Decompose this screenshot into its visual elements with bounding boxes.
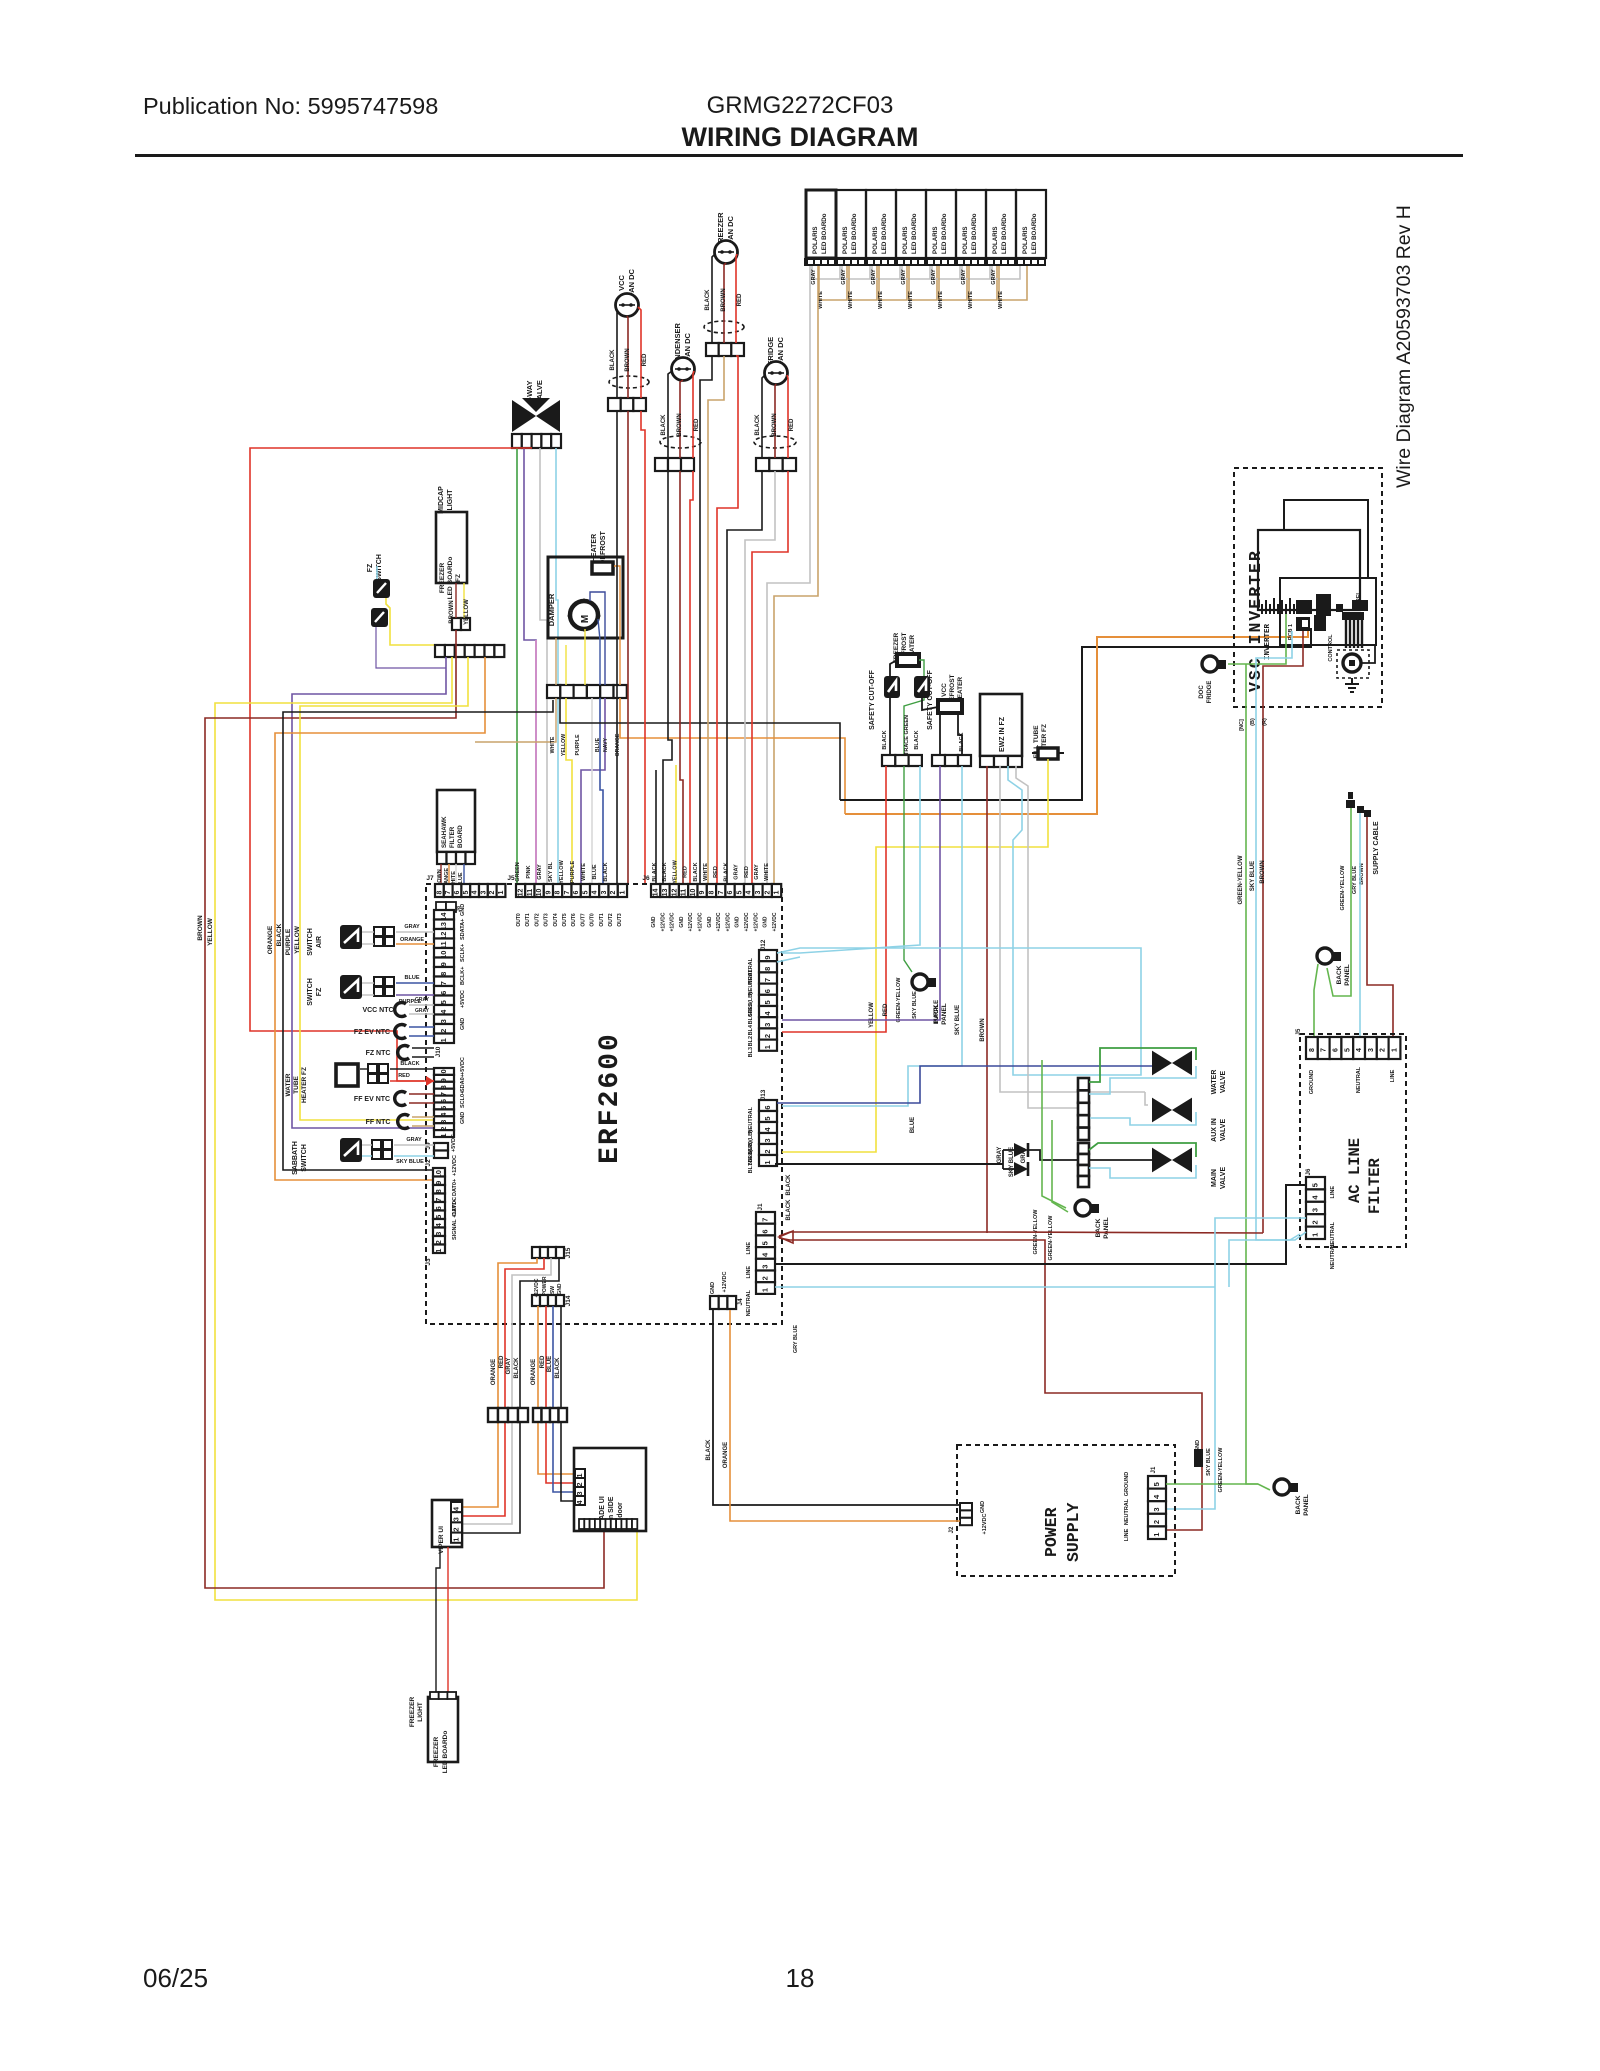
viper connector: [451, 1502, 462, 1512]
wire orange air switch to J10: [362, 943, 374, 945]
svg-text:AUX IN: AUX IN: [1211, 1118, 1218, 1142]
wire green-yellow to back panel ring (valves): [1042, 1060, 1066, 1208]
svg-text:WHITE: WHITE: [998, 291, 1004, 309]
wire gray jumper polaris 3-4: [872, 266, 900, 279]
svg-text:POLARIS: POLARIS: [932, 226, 939, 254]
svg-text:GRAY: GRAY: [415, 1008, 430, 1014]
svg-text:BACK: BACK: [1336, 965, 1343, 984]
svg-text:BROWN: BROWN: [625, 348, 631, 371]
svg-text:8: 8: [436, 890, 443, 894]
wire red water tube heater junction: [390, 1080, 434, 1082]
svg-text:GREEN-YELLOW: GREEN-YELLOW: [1238, 855, 1244, 904]
svg-text:RL5: RL5: [748, 1003, 754, 1013]
svg-text:GRAY: GRAY: [811, 269, 817, 285]
wire tan jumper polaris 4-5: [909, 266, 937, 300]
wire yellow FZ harness long to JADE UI: [215, 657, 637, 1600]
wire red VCC fan: [638, 307, 641, 398]
svg-text:GREEN-YELLOW: GREEN-YELLOW: [1340, 865, 1346, 911]
svg-text:6: 6: [763, 1105, 772, 1109]
wire brown freezer LED long to JADE UI: [205, 630, 604, 1588]
svg-text:9: 9: [439, 962, 448, 966]
svg-text:GREEN: GREEN: [515, 862, 521, 882]
svg-text:GRAY: GRAY: [931, 269, 937, 285]
svg-text:LED BOARDo: LED BOARDo: [442, 1731, 449, 1774]
svg-text:POLARIS: POLARIS: [992, 226, 999, 254]
ring terminal back panel (supply): [1317, 948, 1333, 964]
wire maroon supply cable to filter: [1367, 817, 1393, 1037]
svg-text:DAT0+: DAT0+: [452, 1179, 458, 1196]
VSC inverter dashed box: [1234, 468, 1382, 707]
wire red J14 to jade: [546, 1306, 575, 1483]
svg-text:5: 5: [1311, 1183, 1320, 1187]
wire black CONDENSER fan: [668, 371, 672, 458]
svg-text:BLACK: BLACK: [914, 730, 920, 749]
wire gray EWZ 2: [1016, 766, 1090, 1108]
svg-text:YELLOW: YELLOW: [207, 917, 214, 946]
svg-text:FRIDGE: FRIDGE: [1207, 681, 1213, 704]
svg-text:ORANGE: ORANGE: [723, 1442, 729, 1468]
svg-text:OUT3: OUT3: [544, 913, 550, 927]
wire black FREEZER fan: [712, 254, 715, 343]
svg-text:OUT2: OUT2: [608, 913, 614, 927]
wire maroon EWZ to line bus: [986, 766, 988, 1233]
wire pink to J5: [535, 640, 537, 884]
wire sky-blue 3-way valve to J5: [556, 448, 558, 884]
svg-text:3: 3: [1368, 1048, 1375, 1052]
svg-text:J6: J6: [1306, 1168, 1312, 1175]
damper connector strip: [547, 685, 560, 698]
svg-text:PURPLE: PURPLE: [570, 861, 576, 884]
svg-text:7: 7: [763, 978, 772, 982]
wire sky-blue AC filter neutral to power supply: [1166, 1218, 1306, 1509]
svg-text:LED BOARDo: LED BOARDo: [1001, 213, 1008, 254]
svg-text:2: 2: [1311, 1220, 1320, 1224]
svg-text:+12VDC: +12VDC: [688, 912, 694, 931]
inverter inner box: [1258, 530, 1360, 610]
svg-text:1: 1: [619, 890, 626, 894]
wire maroon ff ev ntc pair: [409, 1093, 434, 1095]
svg-text:J15: J15: [565, 1247, 572, 1258]
svg-text:RED: RED: [883, 1003, 889, 1016]
svg-text:11: 11: [681, 889, 688, 897]
svg-text:NEUTRAL: NEUTRAL: [1356, 1066, 1362, 1093]
svg-text:LED BOARDo: LED BOARDo: [971, 213, 978, 254]
wire navy J12 to water valve: [777, 1066, 1152, 1103]
svg-text:GND: GND: [679, 916, 685, 928]
wire tan jumper polaris 5-6: [939, 266, 967, 300]
svg-text:PINK: PINK: [526, 865, 532, 878]
svg-text:RED: RED: [713, 866, 719, 878]
svg-text:9: 9: [545, 890, 552, 894]
svg-text:5: 5: [761, 1241, 770, 1245]
svg-text:BOARD: BOARD: [457, 825, 464, 848]
svg-text:RED: RED: [683, 866, 689, 878]
svg-text:RED: RED: [789, 418, 795, 431]
wire black freezer fan to J6: [700, 356, 712, 884]
svg-text:GND: GND: [460, 1018, 466, 1030]
svg-text:1: 1: [439, 1133, 448, 1137]
wire brown freezer fan to J6: [708, 356, 724, 884]
svg-text:FZ: FZ: [367, 563, 374, 572]
main valve: [1152, 1148, 1192, 1173]
inverter control connector: [1314, 615, 1326, 631]
wire green doc fridge to inverter: [1228, 614, 1286, 664]
svg-text:POWER: POWER: [542, 1276, 548, 1295]
water valve: [1152, 1051, 1192, 1076]
svg-text:LINE: LINE: [1330, 1186, 1336, 1199]
CONDENSER fan cable clamp: [660, 436, 701, 448]
svg-text:FREEZER: FREEZER: [439, 563, 446, 594]
wire red 3-way valve to left bus: [250, 448, 532, 1081]
svg-text:WHITE: WHITE: [908, 291, 914, 309]
polaris LED board 5: [926, 190, 956, 258]
svg-text:NEUTRAL: NEUTRAL: [746, 1289, 752, 1316]
VCC fan cable clamp: [609, 376, 649, 388]
wire black J13 BL7 to diode: [775, 1163, 1003, 1165]
wire gray EWZ: [1000, 766, 1145, 1092]
EWZ connector: [980, 756, 994, 767]
svg-text:LINE: LINE: [746, 1266, 752, 1279]
svg-text:14: 14: [653, 889, 660, 897]
svg-text:BLUE: BLUE: [547, 1356, 553, 1372]
svg-text:Publication No: 5995747598: Publication No: 5995747598: [143, 93, 438, 119]
svg-text:+12VDC: +12VDC: [698, 912, 704, 931]
wire black bus to VSC inverter: [840, 628, 1311, 800]
svg-text:RED: RED: [398, 1073, 410, 1079]
wire gray vcc ntc pair: [409, 1004, 434, 1006]
svg-text:BL2: BL2: [748, 1036, 754, 1046]
svg-text:2: 2: [489, 890, 496, 894]
wire green 3-way valve to J5: [516, 448, 518, 884]
svg-text:POLARIS: POLARIS: [962, 226, 969, 254]
svg-text:5: 5: [736, 890, 743, 894]
svg-text:FF NTC: FF NTC: [366, 1119, 391, 1126]
wire purple FZ switch down: [376, 627, 446, 668]
svg-text:GRAY: GRAY: [841, 269, 847, 285]
wire tan damper: [555, 638, 557, 685]
wire green-yellow ring to filter ground: [1314, 964, 1318, 1037]
svg-text:SWITCH: SWITCH: [301, 1144, 308, 1172]
svg-text:WHITE: WHITE: [938, 291, 944, 309]
svg-text:VCC NTC: VCC NTC: [362, 1007, 393, 1014]
aux in valve: [1152, 1098, 1192, 1123]
svg-text:8: 8: [439, 972, 448, 976]
wire red VCC fan to J5: [641, 411, 645, 884]
svg-text:PANEL: PANEL: [1344, 964, 1351, 986]
wire orange bus to VSC inverter: [845, 625, 1308, 814]
svg-text:POLARIS: POLARIS: [902, 226, 909, 254]
wire sky-blue water valve loop: [1089, 1066, 1196, 1094]
svg-text:OUT1: OUT1: [525, 913, 531, 927]
wire gray jumper polaris 6-7: [962, 266, 990, 279]
svg-text:FREEZER: FREEZER: [433, 1737, 440, 1768]
svg-text:J4: J4: [737, 1298, 744, 1306]
svg-text:BLUE: BLUE: [595, 737, 601, 752]
wire black ERF J4 to power supply GND: [713, 1310, 960, 1505]
wire green water valve loop: [1089, 1048, 1196, 1082]
svg-text:ORANGE: ORANGE: [400, 937, 424, 943]
svg-text:+12VDC: +12VDC: [722, 1272, 728, 1293]
svg-text:7: 7: [718, 890, 725, 894]
svg-text:5: 5: [763, 1116, 772, 1120]
svg-text:10: 10: [690, 889, 697, 897]
connector J15 bottom: [532, 1247, 540, 1258]
wire brown condenser fan to J6: [680, 471, 683, 884]
svg-text:BLUE: BLUE: [405, 975, 420, 981]
wire tan jumper polaris 7-8: [999, 266, 1027, 300]
svg-text:BROWN: BROWN: [1260, 860, 1266, 883]
svg-text:HEATER FZ: HEATER FZ: [301, 1067, 308, 1103]
svg-text:5: 5: [582, 890, 589, 894]
svg-text:J9: J9: [425, 1142, 432, 1150]
svg-text:3: 3: [452, 1517, 461, 1521]
svg-text:NAVY: NAVY: [603, 737, 609, 752]
wire purple fz switch to J10: [362, 994, 374, 996]
svg-text:PCB 1: PCB 1: [1288, 624, 1294, 640]
wire yellow damper to J5: [565, 645, 567, 685]
FREEZER fan cable clamp: [704, 321, 744, 333]
connector J14 bottom: [532, 1295, 540, 1306]
wire yellow damper stub: [584, 629, 586, 685]
svg-text:RED: RED: [499, 1355, 505, 1368]
wire black heater2 leads: [939, 713, 941, 755]
wire black J14 to jade: [561, 1306, 575, 1501]
svg-text:J3: J3: [425, 1258, 432, 1266]
inverter pcb1 connector: [1296, 617, 1310, 631]
seahawk filter board box: [437, 790, 475, 852]
svg-text:BROWN: BROWN: [772, 413, 778, 436]
svg-text:ORANGE: ORANGE: [267, 925, 274, 954]
wire purple 3-way valve: [524, 448, 536, 884]
wire yellow FZ harness to J9 pin2: [300, 657, 468, 1120]
wire blue J14 to jade: [553, 1306, 575, 1492]
svg-text:1: 1: [761, 1288, 770, 1292]
wire gray jumper polaris 2-3: [842, 266, 870, 279]
3-way valve connector: [512, 434, 522, 448]
svg-text:J12: J12: [760, 939, 767, 950]
svg-text:YELLOW: YELLOW: [464, 599, 470, 625]
svg-text:FREEZER: FREEZER: [409, 1697, 416, 1728]
svg-text:J2: J2: [949, 1526, 955, 1533]
wire red fridge fan to J6: [752, 471, 788, 884]
wire sky-blue supply cable to filter: [1359, 813, 1361, 1037]
svg-text:OUT5: OUT5: [562, 913, 568, 927]
svg-text:RED: RED: [540, 1355, 546, 1368]
svg-text:FZ EV NTC: FZ EV NTC: [354, 1029, 390, 1036]
svg-text:GND: GND: [557, 1283, 563, 1295]
svg-text:PANEL: PANEL: [1303, 1494, 1310, 1516]
wire brown seahawk to J7: [440, 864, 442, 884]
svg-text:1: 1: [1311, 1233, 1320, 1237]
svg-text:1: 1: [763, 1160, 772, 1164]
svg-text:1: 1: [1392, 1048, 1399, 1052]
svg-text:BLACK: BLACK: [755, 414, 761, 436]
connector J3 left: [433, 1168, 445, 1177]
svg-text:J2: J2: [425, 1159, 432, 1167]
svg-text:PURPLE: PURPLE: [285, 928, 292, 955]
svg-text:OUT2: OUT2: [534, 913, 540, 927]
svg-text:SCLK+: SCLK+: [460, 944, 466, 962]
wire sky-blue cutoff2 to J12 neutral: [782, 766, 920, 953]
wire tan polaris chain to board J6: [774, 266, 818, 884]
svg-text:BL8: BL8: [748, 1152, 754, 1162]
svg-text:GND: GND: [1195, 1440, 1201, 1452]
wire black ERF J1 line to AC filter: [775, 1185, 1306, 1264]
wire orange damper heater: [614, 566, 620, 685]
damper motor M: [570, 601, 598, 629]
svg-text:2: 2: [764, 890, 771, 894]
svg-text:GND: GND: [763, 916, 769, 928]
wire sky-blue main valve loop: [1089, 1165, 1196, 1178]
wire orange FZ harness to J3: [275, 657, 485, 1180]
svg-text:GRAY: GRAY: [961, 269, 967, 285]
svg-text:SAFETY CUT-OFF: SAFETY CUT-OFF: [869, 669, 876, 729]
svg-text:PANEL: PANEL: [1103, 1217, 1110, 1239]
svg-text:GRAY: GRAY: [406, 1137, 422, 1143]
wire navy damper motor: [590, 592, 605, 685]
svg-text:2: 2: [575, 1482, 584, 1486]
wire black fz ntc pair: [412, 1047, 434, 1049]
svg-text:SUPPLY: SUPPLY: [1064, 1502, 1083, 1562]
svg-text:LED BOARDo: LED BOARDo: [447, 557, 454, 600]
svg-text:SDA0+: SDA0+: [460, 1074, 466, 1092]
valve strip 1: [1078, 1078, 1089, 1090]
svg-text:7: 7: [564, 890, 571, 894]
svg-text:WHITE: WHITE: [550, 736, 556, 753]
svg-text:BLACK: BLACK: [514, 1357, 520, 1379]
svg-text:VCC: VCC: [617, 275, 626, 291]
wire yellow freezer LED: [463, 583, 465, 618]
ring terminal DOC FRIDGE: [1202, 656, 1218, 672]
svg-text:2: 2: [439, 1029, 448, 1033]
ring terminal back panel (power supply): [1274, 1479, 1290, 1495]
inverter pcb components: [1296, 600, 1312, 614]
svg-text:GND: GND: [460, 1112, 466, 1124]
svg-text:BROWN: BROWN: [980, 1018, 986, 1041]
svg-text:GND: GND: [735, 916, 741, 928]
svg-text:BLACK: BLACK: [603, 862, 609, 881]
wire black safety cutoff 1: [890, 660, 897, 676]
svg-text:SKY BL: SKY BL: [548, 861, 554, 882]
inverter heatsink: [1262, 598, 1294, 614]
svg-text:POLARIS: POLARIS: [812, 226, 819, 254]
wire white damper to J5: [591, 698, 593, 884]
wire orange ERF J4 to power supply 12V: [730, 1310, 960, 1521]
svg-text:MAIN: MAIN: [1211, 1169, 1218, 1187]
svg-text:OUT3: OUT3: [617, 913, 623, 927]
svg-text:BROWN: BROWN: [197, 915, 204, 941]
svg-text:3: 3: [1311, 1208, 1320, 1212]
wire green-yellow inverter down: [1246, 664, 1258, 1484]
svg-text:OUT1: OUT1: [599, 913, 605, 927]
svg-text:8: 8: [1309, 1048, 1316, 1052]
svg-text:LED BOARDo: LED BOARDo: [911, 213, 918, 254]
svg-text:6: 6: [761, 1229, 770, 1233]
svg-text:1: 1: [763, 1045, 772, 1049]
wire sky-blue J12 neutral 2: [777, 957, 800, 962]
wire sky-blue aux valve loop: [1090, 1112, 1196, 1125]
svg-text:BLACK: BLACK: [662, 862, 668, 881]
svg-text:1: 1: [1152, 1533, 1161, 1537]
svg-text:BLACK: BLACK: [723, 862, 729, 881]
wire tan ff ntc pair: [412, 1116, 434, 1118]
svg-text:AIR: AIR: [316, 936, 323, 948]
supply cable plugs: [1346, 800, 1355, 808]
svg-text:LINE: LINE: [1390, 1069, 1396, 1082]
svg-text:SCL0+: SCL0+: [460, 1091, 466, 1108]
wire sky-blue EWZ diagonal: [1008, 766, 1090, 1075]
wire black J15 to viper: [462, 1258, 559, 1533]
wire brown VCC fan: [627, 316, 628, 398]
svg-text:3: 3: [755, 890, 762, 894]
svg-text:RED: RED: [694, 418, 700, 431]
svg-text:1: 1: [439, 1038, 448, 1042]
wire red viper to freezer LED: [447, 1547, 449, 1692]
wire sky-blue inverter down: [1256, 631, 1300, 1240]
svg-text:J1: J1: [1151, 1466, 1157, 1473]
safety cutoff 1 connector: [882, 755, 895, 766]
wire white seahawk to J7: [455, 864, 457, 884]
svg-text:GND: GND: [460, 904, 466, 916]
svg-text:8: 8: [763, 967, 772, 971]
svg-text:VALVE: VALVE: [1220, 1119, 1227, 1142]
svg-text:1: 1: [452, 1538, 461, 1542]
svg-text:SEAHAWK: SEAHAWK: [441, 816, 448, 848]
wire yellow fill tube to J13: [782, 759, 1048, 1152]
wire sky-blue sabbath switch: [362, 1155, 372, 1157]
svg-text:4: 4: [746, 890, 753, 894]
svg-text:NEUTRAL: NEUTRAL: [748, 968, 754, 995]
polaris boards connector row: [804, 258, 1046, 266]
svg-text:GRAY: GRAY: [506, 1358, 512, 1375]
svg-text:OUT0: OUT0: [516, 913, 522, 927]
svg-text:BLUE: BLUE: [592, 864, 598, 879]
svg-text:BLACK: BLACK: [959, 732, 965, 751]
svg-text:GRY BLUE: GRY BLUE: [793, 1325, 799, 1353]
svg-text:VIPER UI: VIPER UI: [438, 1526, 445, 1554]
svg-text:7: 7: [1321, 1048, 1328, 1052]
wire brown freezer LED: [455, 583, 457, 618]
svg-text:BLACK: BLACK: [610, 349, 616, 371]
wire orange damper to left J3 bus: [620, 698, 845, 814]
svg-text:3: 3: [575, 1491, 584, 1495]
wire gray sabbath switch: [362, 1144, 372, 1146]
wire black FRIDGE fan: [762, 375, 765, 458]
svg-text:BLACK: BLACK: [652, 862, 658, 881]
wire black fridge fan to J6: [727, 471, 762, 884]
svg-text:FZ NTC: FZ NTC: [366, 1050, 391, 1057]
wire sky-blue heater2 chain to J13 neutral: [782, 766, 962, 1106]
svg-text:NEUTRAL: NEUTRAL: [1124, 1498, 1130, 1525]
svg-text:GRAY: GRAY: [537, 864, 543, 880]
wire purple heater2 to J12: [782, 766, 940, 1020]
svg-text:(R): (R): [1262, 718, 1268, 726]
wire tan jumper polaris 6-7: [969, 266, 997, 300]
svg-text:3: 3: [761, 1265, 770, 1269]
svg-text:4: 4: [1356, 1048, 1363, 1052]
wire green trace heater to backpanel ring: [904, 660, 924, 755]
svg-text:J1: J1: [757, 1203, 764, 1211]
svg-text:OUT7: OUT7: [580, 913, 586, 927]
svg-text:6: 6: [727, 890, 734, 894]
svg-text:GRAY: GRAY: [404, 924, 420, 930]
connector J1 right: [756, 1212, 775, 1224]
polaris LED board 3: [866, 190, 896, 258]
svg-text:7: 7: [439, 981, 448, 985]
svg-text:2: 2: [763, 1034, 772, 1038]
svg-text:VALVE: VALVE: [1220, 1071, 1227, 1094]
wire gray J15 to viper: [462, 1258, 551, 1524]
